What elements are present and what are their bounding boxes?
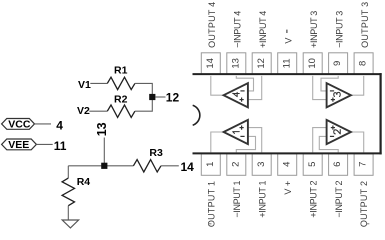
pin 8 box (354, 53, 373, 75)
svg-text:OUTPUT 2: OUTPUT 2 (359, 181, 369, 227)
junction node 12 (149, 94, 155, 100)
svg-text:+INPUT 3: +INPUT 3 (309, 11, 319, 48)
wire node 13 horizontal (68, 165, 133, 167)
svg-text:7: 7 (358, 162, 369, 167)
svg-text:6: 6 (332, 162, 343, 167)
svg-text:R4: R4 (77, 176, 91, 188)
svg-text:13: 13 (230, 58, 241, 69)
svg-text:5: 5 (307, 162, 318, 167)
wire pin 9 to op-amp3 minus (321, 76, 338, 91)
svg-text:13: 13 (95, 122, 109, 136)
svg-text:12: 12 (256, 58, 267, 69)
svg-text:V1: V1 (78, 79, 91, 91)
wire pin 12 to op-amp4 plus (248, 76, 261, 100)
pin 9 box (329, 53, 348, 75)
svg-text:VCC: VCC (8, 119, 31, 131)
svg-text:4: 4 (281, 162, 292, 167)
svg-text:4: 4 (56, 118, 63, 132)
op-amp U1C (3) (327, 83, 351, 107)
svg-text:11: 11 (54, 139, 67, 153)
svg-text:V +: V + (283, 181, 293, 195)
svg-text:8: 8 (358, 61, 369, 66)
pin 10 box (303, 53, 322, 75)
svg-text:V2: V2 (77, 105, 90, 117)
svg-text:R2: R2 (114, 93, 128, 105)
pin 12 box (252, 53, 271, 75)
svg-text:−INPUT 3: −INPUT 3 (334, 11, 344, 48)
wire down to R4 (67, 166, 69, 178)
svg-text:1: 1 (205, 162, 216, 167)
resistor R1 (107, 65, 135, 90)
op-amp U1B (2) (327, 120, 351, 144)
svg-text:14: 14 (205, 58, 216, 69)
svg-text:OUTPUT 4: OUTPUT 4 (207, 2, 217, 48)
IC U1 body right edge (380, 73, 382, 154)
svg-text:−INPUT 2: −INPUT 2 (334, 180, 344, 217)
pin 1 box (201, 154, 220, 176)
svg-text:V: V (284, 38, 294, 44)
wire node 12 to label (155, 96, 165, 98)
svg-text:R3: R3 (149, 147, 163, 159)
IC U1 body top edge (193, 73, 382, 75)
junction node 13 (101, 163, 107, 169)
wire op-amp2 plus to pin 5 (313, 128, 327, 153)
wire pin 10 to op-amp3 plus (313, 76, 327, 100)
svg-text:14: 14 (181, 160, 195, 174)
pin 4 box (278, 154, 297, 176)
power flag VEE (2, 139, 37, 151)
resistor R4 (62, 176, 90, 206)
wire op-amp3 output to pin 8 (351, 76, 364, 95)
pin 7 box (354, 154, 373, 176)
wire op-amp2 minus to pin 6 (319, 136, 338, 152)
op-amp U1A (1) (224, 120, 248, 144)
svg-text:9: 9 (332, 61, 343, 66)
svg-text:10: 10 (307, 58, 318, 69)
resistor R3 (133, 147, 163, 172)
stray dash below OUTPUT 2 (367, 223, 370, 225)
ground (62, 220, 78, 228)
svg-text:11: 11 (281, 58, 292, 68)
pin 3 box (252, 154, 271, 176)
stray dash below OUTPUT 1 (209, 223, 212, 225)
svg-text:OUTPUT 1: OUTPUT 1 (206, 181, 216, 227)
wire VCC to pin4 label (35, 123, 52, 125)
svg-text:−INPUT 4: −INPUT 4 (233, 11, 243, 48)
svg-text:+INPUT 2: +INPUT 2 (308, 180, 318, 217)
svg-text:+INPUT 1: +INPUT 1 (257, 180, 267, 217)
pin label V − (284, 30, 294, 44)
IC U1 body bottom edge (193, 152, 382, 154)
wire pin 13 to op-amp4 minus (236, 76, 253, 91)
pin 14 box (201, 53, 220, 75)
wire V2 to R2 (89, 110, 107, 112)
wire R3 to pin14 label (161, 165, 179, 167)
svg-text:VEE: VEE (8, 139, 29, 151)
wire op-amp1 plus to pin 3 (248, 128, 261, 153)
wire op-amp1 output to pin 1 (211, 132, 224, 152)
pin 2 box (227, 154, 246, 176)
resistor R2 (107, 93, 135, 117)
IC U1 notch (193, 105, 200, 125)
op-amp U1D (4) (224, 83, 248, 107)
pin 6 box (329, 154, 348, 176)
svg-text:3: 3 (256, 162, 267, 167)
svg-text:OUTPUT 3: OUTPUT 3 (360, 2, 370, 48)
svg-text:2: 2 (230, 162, 241, 167)
wire node 13 stub up (103, 138, 105, 166)
wire R2 to node 12 (135, 100, 152, 112)
svg-text:12: 12 (166, 91, 180, 105)
power flag VCC (2, 119, 35, 131)
wire V1 to R1 (90, 82, 107, 84)
wire VEE to pin11 label (36, 143, 52, 145)
wire op-amp2 output to pin 7 (351, 132, 364, 152)
wire R1 to node 12 (135, 83, 152, 94)
pin 11 box (278, 53, 297, 75)
wire op-amp1 minus to pin 2 (236, 136, 255, 152)
svg-text:+INPUT 4: +INPUT 4 (258, 11, 268, 48)
svg-text:R1: R1 (114, 65, 128, 77)
wire op-amp4 output to pin 14 (211, 76, 224, 95)
svg-text:−INPUT 1: −INPUT 1 (232, 180, 242, 217)
wire R4 to ground (67, 206, 69, 220)
pin 13 box (227, 53, 246, 75)
pin 5 box (303, 154, 322, 176)
